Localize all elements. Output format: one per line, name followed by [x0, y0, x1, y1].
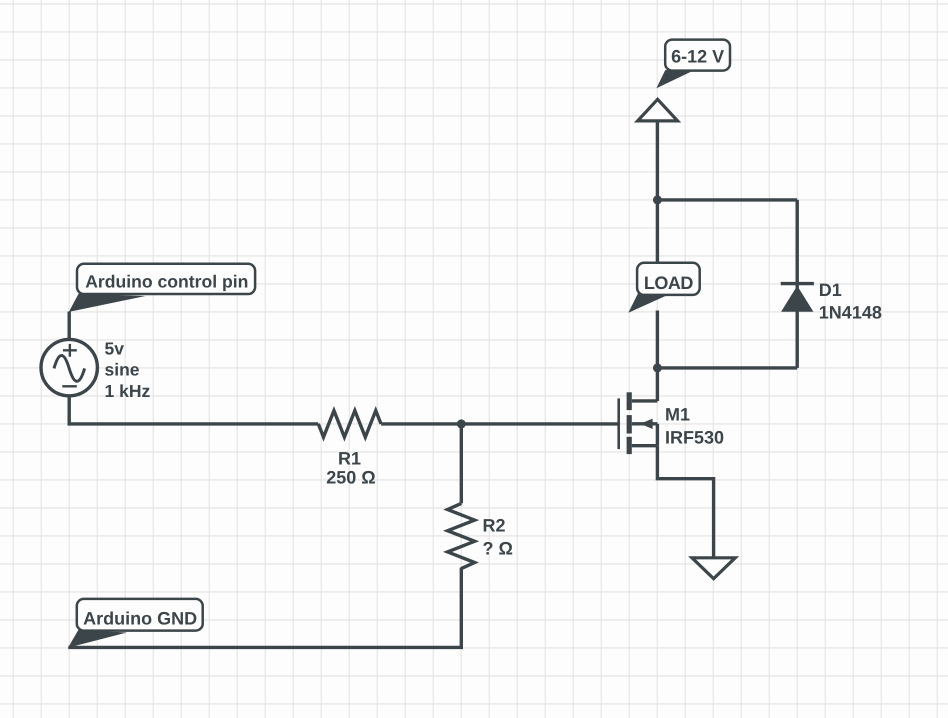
svg-text:M1: M1 [665, 405, 690, 425]
wire power rail down from triangle to LOAD [656, 121, 659, 296]
svg-text:R2: R2 [483, 516, 506, 536]
svg-text:1 kHz: 1 kHz [105, 381, 151, 401]
callout Arduino control pin [69, 264, 255, 312]
svg-text:IRF530: IRF530 [665, 427, 724, 447]
power flag 6-12V triangle [638, 99, 678, 121]
wire source net: sine source to gate with R1 inline [69, 396, 318, 424]
body-to-source vertical [656, 424, 659, 446]
svg-text:6-12 V: 6-12 V [671, 47, 724, 67]
body line with arrow [632, 422, 658, 425]
junction node R1/R2 [457, 419, 466, 428]
svg-text:D1: D1 [819, 280, 842, 300]
svg-text:Arduino GND: Arduino GND [83, 608, 197, 628]
wire top junction to diode branch [657, 198, 797, 201]
svg-text:1N4148: 1N4148 [819, 303, 882, 323]
callout Arduino GND [68, 599, 203, 648]
drain stub [632, 399, 658, 402]
wire MOSFET source to ground [657, 446, 713, 557]
junction node lower (drain / diode) [653, 363, 662, 372]
plus sign [63, 344, 77, 357]
svg-text:Arduino control pin: Arduino control pin [85, 271, 248, 291]
wire diode vertical branch [796, 200, 799, 368]
source stub [632, 444, 658, 447]
wire junction down to R2 [460, 424, 463, 504]
resistor R1 [318, 411, 381, 438]
gate bar [617, 398, 620, 449]
MOSFET M1 IRF530 [619, 392, 658, 454]
svg-text:5v: 5v [105, 339, 125, 359]
wire control pin to sine source [67, 312, 70, 340]
minus sign [62, 385, 77, 387]
wire R2 to bottom rail to Arduino GND [68, 568, 461, 648]
wire lower junction to diode branch [657, 366, 797, 369]
svg-text:sine: sine [105, 360, 140, 380]
callout 6-12 V [656, 40, 730, 89]
svg-text:LOAD: LOAD [644, 273, 693, 293]
callout LOAD [628, 263, 699, 313]
diode D1 1N4148 [781, 284, 814, 312]
svg-text:250 Ω: 250 Ω [326, 468, 375, 488]
resistor R2 [448, 503, 475, 568]
wire R1 to gate [381, 422, 619, 425]
svg-text:R1: R1 [338, 449, 361, 469]
wire LOAD bottom to MOSFET drain [656, 311, 659, 402]
ground symbol [692, 558, 735, 579]
sine voltage source V1 [41, 339, 97, 395]
sine wave [54, 356, 85, 382]
junction node top (drain rail / diode) [653, 195, 662, 204]
svg-text:? Ω: ? Ω [483, 539, 513, 559]
channel bars [627, 392, 632, 454]
